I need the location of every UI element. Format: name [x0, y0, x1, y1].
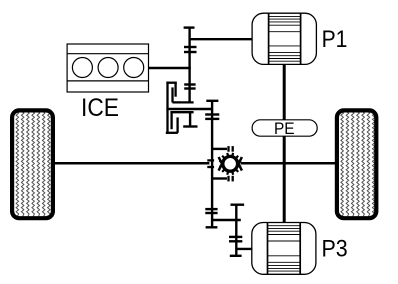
shaft B bearing bottom [206, 226, 218, 228]
shaft C vertical [235, 205, 237, 256]
sun lower shaft [189, 112, 191, 126]
differential side mesh east chevron [239, 157, 242, 171]
gear pair on shaft B upper [205, 113, 219, 115]
gear pair on shaft C [229, 236, 242, 238]
wheel right [337, 110, 376, 218]
shaft A vertical [188, 28, 190, 103]
engine ICE [67, 44, 148, 92]
differential mesh south bars [227, 176, 229, 182]
clutch inner plates [170, 87, 193, 129]
countershaft link [212, 219, 241, 221]
shaft to motor P3 [236, 248, 252, 250]
differential cage bottom [212, 177, 227, 179]
svg-text:P3: P3 [322, 235, 348, 262]
shaft ICE output [149, 67, 191, 70]
svg-text:ICE: ICE [81, 94, 119, 122]
gear pair on shaft A upper [184, 46, 197, 48]
differential ring gear [219, 153, 241, 175]
gear pair on shaft B lower [205, 208, 217, 210]
carrier line [166, 108, 212, 110]
shaft B vertical [211, 101, 213, 228]
shaft to motor P1 [190, 38, 253, 40]
differential mesh west bars [207, 159, 214, 161]
motor P3 [252, 223, 316, 275]
differential side mesh west chevron [219, 157, 222, 171]
differential mesh north bars [227, 146, 229, 152]
axle right [241, 162, 337, 165]
gear pair on shaft A lower [184, 83, 195, 85]
electric line P1 to PE [283, 64, 286, 119]
clutch housing outer bracket [166, 82, 178, 134]
differential cage top [212, 148, 227, 150]
electric line PE to P3 [283, 136, 286, 222]
svg-text:PE: PE [274, 119, 295, 138]
shaft C bearing top [231, 203, 245, 205]
motor P1 [252, 13, 316, 64]
shaft C bearing bottom [230, 255, 242, 257]
power electronics PE [252, 120, 317, 136]
shaft A end bearing top [184, 26, 195, 28]
shaft B bearing top [206, 100, 218, 102]
axle left [52, 162, 209, 165]
wheel left [12, 110, 53, 218]
svg-text:P1: P1 [322, 26, 348, 53]
